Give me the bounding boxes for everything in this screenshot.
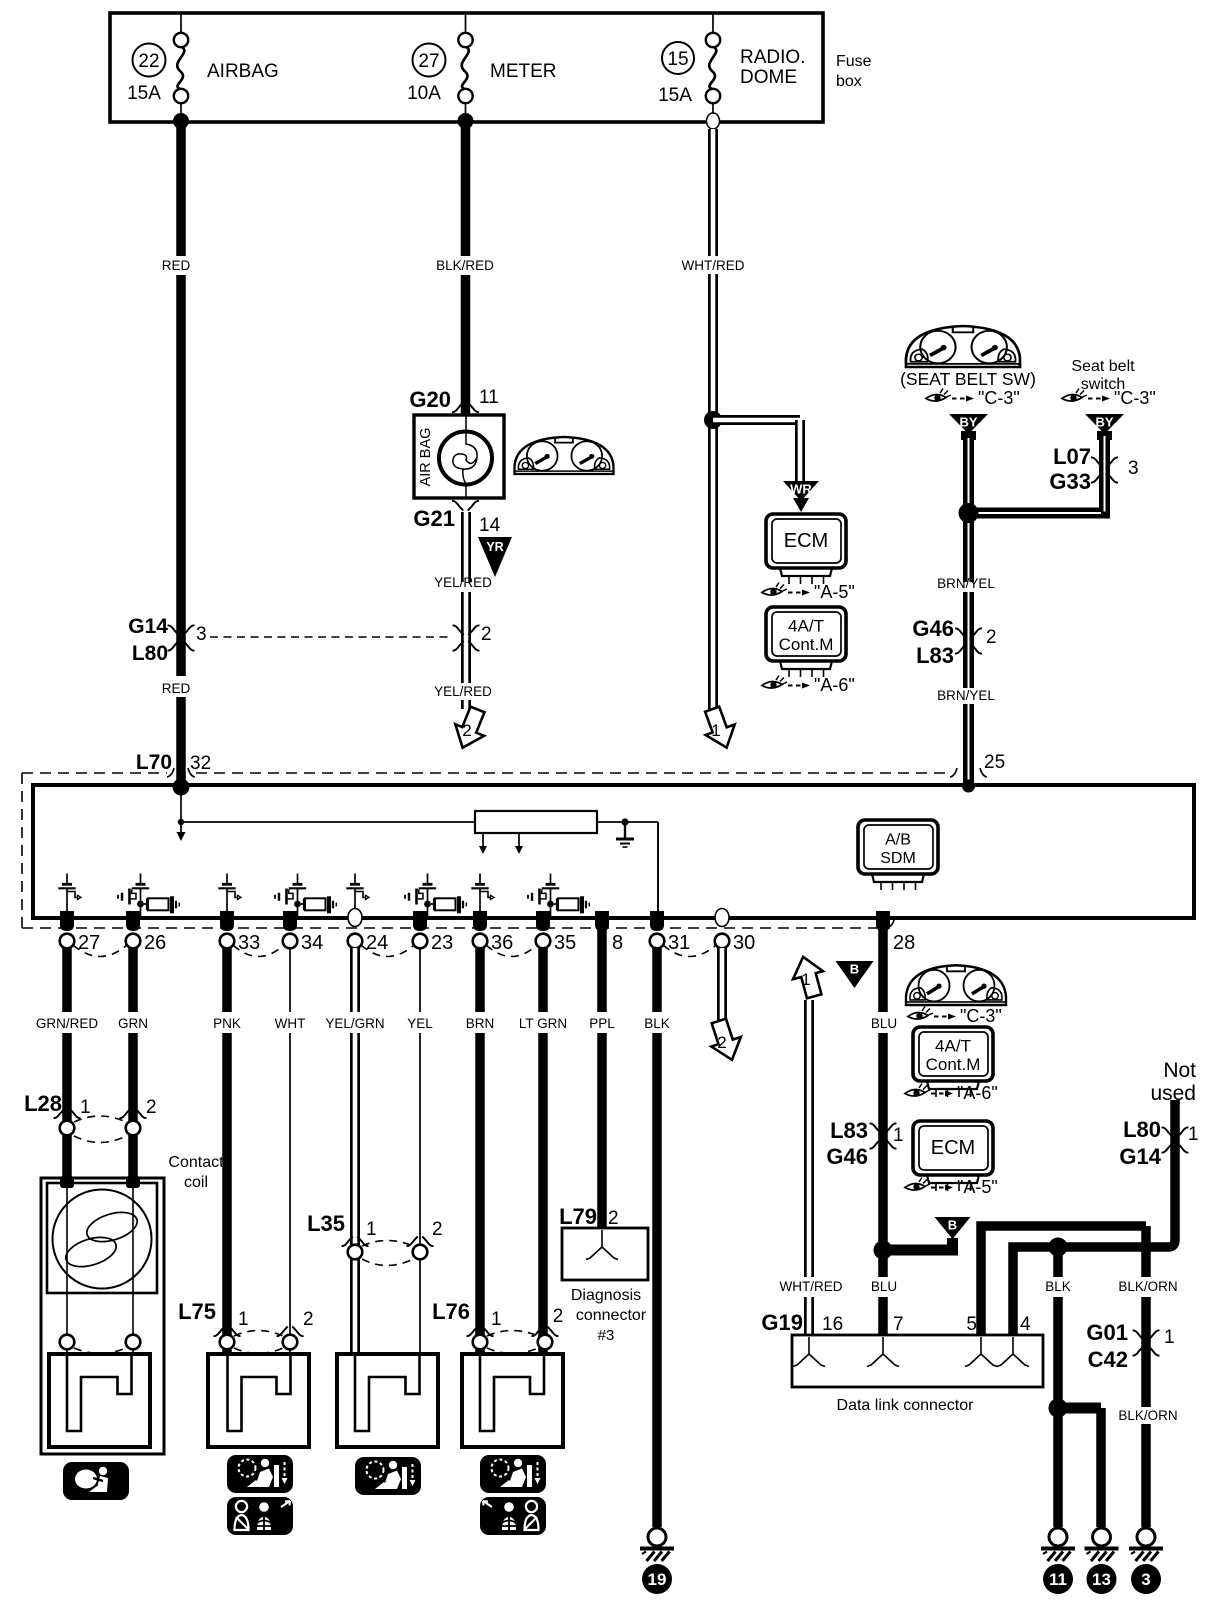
eye ref C-3 left: [926, 394, 946, 401]
svg-text:1: 1: [1188, 1124, 1199, 1145]
svg-text:GRN/RED: GRN/RED: [36, 1016, 99, 1031]
svg-text:A/B: A/B: [885, 832, 911, 849]
svg-text:BLK: BLK: [644, 1016, 670, 1031]
svg-text:2: 2: [717, 1033, 726, 1052]
fuse F15 RADIO DOME 15A: [712, 14, 714, 33]
SDM driver glyph above pin 33: [226, 874, 228, 884]
wire WHT/RED tail to DLC pin 16: [804, 1000, 814, 1277]
svg-text:Contact: Contact: [168, 1154, 224, 1171]
stub from B to BLU junction: [947, 1238, 958, 1250]
dashed connector row below SDM: [22, 927, 890, 929]
svg-text:BLK: BLK: [1045, 1279, 1071, 1294]
triangle B lower: [935, 1217, 971, 1239]
svg-text:2: 2: [553, 1306, 564, 1327]
wire BRN/YEL main from BY to SDM pin 25: [963, 438, 974, 582]
eye ref A-5 upper: [762, 588, 782, 595]
wire BRN pin 36: [475, 948, 485, 1012]
dashed boundary left vertical: [21, 773, 23, 928]
branch wire to WR / ECM: [713, 415, 800, 425]
svg-text:RED: RED: [162, 681, 191, 696]
junction dot BLK branch: [1049, 1238, 1068, 1257]
svg-text:4A/T: 4A/T: [788, 617, 824, 636]
svg-text:G20: G20: [409, 387, 451, 412]
SDM internal horizontal rail: [181, 821, 475, 823]
resistor arrows: [482, 833, 484, 847]
svg-text:30: 30: [733, 932, 755, 954]
svg-text:"A-6": "A-6": [814, 675, 855, 695]
svg-text:AIR BAG: AIR BAG: [418, 428, 434, 487]
svg-text:B: B: [948, 1218, 957, 1233]
svg-text:25: 25: [984, 752, 1005, 773]
svg-text:Cont.M: Cont.M: [779, 635, 834, 654]
module ECM right: [913, 1121, 993, 1175]
fuse F27 METER 10A: [465, 14, 467, 33]
svg-text:1: 1: [711, 721, 720, 740]
wire BLU pin 28 to DLC pin 7: [878, 922, 888, 1012]
arrow 2 off-page down: [448, 704, 492, 754]
side airbag squib: [462, 1354, 563, 1447]
svg-text:1: 1: [893, 1125, 904, 1146]
svg-text:L79: L79: [559, 1204, 597, 1229]
svg-text:3: 3: [1128, 458, 1139, 479]
ground G19 for BLK wire: [648, 1528, 666, 1546]
driver airbag squib: [49, 1354, 150, 1447]
svg-text:1: 1: [801, 970, 810, 989]
SDM module icon A/B SDM: [858, 820, 938, 874]
svg-text:(SEAT BELT SW): (SEAT BELT SW): [900, 369, 1036, 389]
ground 3: [1137, 1528, 1155, 1546]
lamp bulb circle with filament: [439, 432, 492, 485]
SDM internal ground: [597, 821, 658, 823]
svg-text:31: 31: [668, 932, 690, 954]
svg-text:L80: L80: [1123, 1117, 1161, 1142]
wire YEL/GRN pin 24 double: [350, 948, 360, 1012]
wire stubs into contact coil: [60, 1176, 74, 1188]
contact coil outer box: [41, 1178, 164, 1454]
svg-text:"A-5": "A-5": [957, 1177, 998, 1197]
SDM pin stubs: [60, 911, 74, 931]
triangle WR: [783, 481, 819, 501]
fuse box outline: [110, 13, 823, 122]
svg-text:"C-3": "C-3": [960, 1006, 1002, 1026]
svg-text:35: 35: [554, 932, 576, 954]
svg-text:YEL/RED: YEL/RED: [434, 575, 492, 590]
SDM driver glyph above pin 27: [66, 874, 68, 884]
arrow 1 off-page down (WHT/RED): [698, 704, 741, 753]
svg-text:"A-5": "A-5": [814, 582, 855, 602]
pin circles and numbers: [60, 934, 75, 949]
SDM squib driver glyph above pin 35: [550, 874, 552, 884]
svg-text:BLK/ORN: BLK/ORN: [1118, 1279, 1177, 1294]
svg-text:24: 24: [366, 932, 388, 954]
svg-text:3: 3: [196, 624, 207, 645]
ground 11: [1049, 1528, 1067, 1546]
junction dot RED wire at SDM: [173, 779, 190, 796]
junction dot WHT/RED branch: [704, 411, 722, 429]
svg-text:8: 8: [612, 932, 623, 954]
SDM outer box: [33, 785, 1194, 918]
svg-text:"C-3": "C-3": [978, 388, 1020, 408]
svg-text:L35: L35: [307, 1211, 345, 1236]
wire WHT/RED pin 30 double: [717, 948, 727, 1021]
svg-text:WR: WR: [790, 482, 812, 497]
badge passenger airbag icon: [355, 1457, 421, 1495]
svg-text:coil: coil: [184, 1174, 208, 1191]
wire BLK/RED from fuse 27 to G20: [461, 122, 471, 256]
svg-text:Not: Not: [1163, 1059, 1196, 1082]
svg-text:2: 2: [986, 627, 997, 648]
svg-text:ECM: ECM: [931, 1137, 975, 1159]
svg-text:PNK: PNK: [213, 1016, 241, 1031]
svg-text:#3: #3: [598, 1327, 615, 1344]
svg-text:15: 15: [667, 49, 688, 70]
svg-text:YR: YR: [486, 540, 503, 554]
wire GRN pin 26: [128, 948, 138, 1012]
SDM squib driver glyph above pin 26: [140, 874, 142, 884]
diagnosis connector box L79: [562, 1228, 648, 1280]
module ECM upper: [766, 514, 846, 568]
wire DLC pin5 to BLK/ORN: [981, 1226, 1146, 1335]
svg-text:G21: G21: [413, 506, 455, 531]
svg-text:1: 1: [1164, 1327, 1175, 1348]
svg-text:33: 33: [238, 932, 260, 954]
passenger airbag squib: [337, 1354, 438, 1447]
wire GRN/RED pin 27: [62, 948, 72, 1012]
svg-text:LT GRN: LT GRN: [519, 1016, 567, 1031]
connector G21 pin 14: [452, 501, 463, 511]
fuse F22 AIRBAG 15A: [180, 14, 182, 33]
eye ref A-5 right: [905, 1183, 925, 1190]
svg-text:28: 28: [893, 932, 915, 954]
junction dot BRN/YEL: [959, 503, 979, 523]
svg-text:BLK/ORN: BLK/ORN: [1118, 1408, 1177, 1423]
wire YEL/RED double below G21: [461, 512, 471, 582]
svg-text:27: 27: [78, 932, 100, 954]
svg-text:36: 36: [491, 932, 513, 954]
driver airbag badge: [63, 1462, 129, 1500]
svg-text:Diagnosis: Diagnosis: [571, 1287, 641, 1304]
svg-text:BLK/RED: BLK/RED: [436, 258, 494, 273]
svg-text:L70: L70: [136, 751, 172, 774]
svg-text:DOME: DOME: [740, 67, 797, 88]
svg-text:34: 34: [301, 932, 323, 954]
svg-text:L83: L83: [916, 643, 954, 668]
wire DLC pin4 rail joined with Not-used wire: [1013, 1100, 1175, 1335]
wire BLK/ORN down to ground: [1141, 1226, 1151, 1277]
svg-text:C42: C42: [1088, 1347, 1128, 1372]
dashed connector line L70: [22, 772, 167, 774]
svg-text:G01: G01: [1086, 1320, 1128, 1345]
svg-text:2: 2: [481, 624, 492, 645]
wire WHT/RED double from fuse 15 down: [707, 113, 720, 129]
svg-text:box: box: [836, 73, 862, 90]
svg-text:Seat belt: Seat belt: [1071, 358, 1135, 375]
svg-text:1: 1: [238, 1309, 249, 1330]
arrow 2 off-page below pin 30: [705, 1016, 747, 1065]
svg-text:27: 27: [418, 51, 439, 72]
svg-text:7: 7: [893, 1314, 904, 1335]
ground number 19: [642, 1564, 672, 1594]
svg-text:YEL/RED: YEL/RED: [434, 684, 492, 699]
svg-text:connector: connector: [576, 1307, 647, 1324]
wire PPL pin 8: [597, 924, 607, 1012]
triangle BY right: [1085, 414, 1124, 434]
svg-text:SDM: SDM: [880, 850, 916, 867]
svg-text:2: 2: [462, 721, 471, 740]
svg-text:G19: G19: [761, 1310, 803, 1335]
svg-text:11: 11: [479, 387, 499, 408]
svg-text:L28: L28: [24, 1091, 62, 1116]
svg-text:15A: 15A: [658, 85, 692, 106]
wire LT GRN pin 35: [538, 948, 548, 1012]
svg-text:WHT: WHT: [275, 1016, 306, 1031]
AIR BAG warning lamp box: [414, 415, 504, 498]
svg-text:Data link connector: Data link connector: [837, 1397, 975, 1414]
module 4A/T Cont.M upper: [766, 607, 846, 661]
SDM driver glyph above pin 36: [479, 874, 481, 884]
svg-text:4: 4: [1020, 1314, 1031, 1335]
svg-text:BRN: BRN: [466, 1016, 495, 1031]
svg-text:13: 13: [1092, 1570, 1111, 1589]
svg-text:BY: BY: [1095, 415, 1113, 430]
svg-text:WHT/RED: WHT/RED: [682, 258, 745, 273]
svg-text:WHT/RED: WHT/RED: [780, 1279, 843, 1294]
wire WHT pin 34: [289, 948, 291, 1012]
svg-text:L76: L76: [432, 1299, 470, 1324]
svg-text:26: 26: [144, 932, 166, 954]
instrument cluster icon near air bag lamp: [515, 437, 614, 474]
svg-text:YEL/GRN: YEL/GRN: [325, 1016, 384, 1031]
contact coil internal connector circles: [60, 1335, 75, 1350]
junction dot BLK split: [1049, 1399, 1068, 1418]
SDM internal line to pin 31: [657, 822, 659, 916]
svg-text:"C-3": "C-3": [1114, 388, 1156, 408]
svg-text:5: 5: [966, 1314, 977, 1335]
module 4A/T Cont.M right: [913, 1027, 993, 1081]
SDM squib driver glyph above pin 34: [297, 874, 299, 884]
svg-text:1: 1: [80, 1097, 91, 1118]
svg-text:YEL: YEL: [407, 1016, 433, 1031]
svg-text:23: 23: [431, 932, 453, 954]
svg-text:4A/T: 4A/T: [935, 1037, 971, 1056]
svg-text:2: 2: [146, 1097, 157, 1118]
svg-text:BLU: BLU: [871, 1279, 897, 1294]
svg-text:15A: 15A: [127, 83, 161, 104]
svg-text:Fuse: Fuse: [836, 53, 872, 70]
svg-text:G14: G14: [1119, 1144, 1161, 1169]
svg-text:G46: G46: [826, 1144, 868, 1169]
SDM squib driver glyph above pin 23: [427, 874, 429, 884]
instrument cluster icon seat belt: [906, 326, 1020, 367]
wire BLK to ground: [1053, 1247, 1063, 1277]
SDM internal: line from pin 32: [180, 787, 182, 832]
badge side airbag icon2: [480, 1497, 546, 1535]
svg-text:BY: BY: [959, 415, 977, 430]
data link connector box: [792, 1335, 1043, 1387]
svg-text:AIRBAG: AIRBAG: [207, 61, 279, 82]
svg-text:G14: G14: [128, 615, 168, 638]
contact coil spiral: [53, 1190, 152, 1289]
SDM driver glyph above pin 24: [354, 874, 356, 884]
dashed link G14/L80 to 2: [210, 636, 448, 638]
svg-text:1: 1: [366, 1219, 377, 1240]
svg-text:Cont.M: Cont.M: [926, 1055, 981, 1074]
svg-text:L83: L83: [830, 1118, 868, 1143]
triangle B upper: [836, 961, 874, 988]
svg-text:BRN/YEL: BRN/YEL: [937, 688, 995, 703]
eye ref C-3 right: [1062, 394, 1082, 401]
svg-text:32: 32: [190, 753, 211, 774]
passenger front squib L75: [208, 1354, 309, 1447]
svg-text:2: 2: [303, 1309, 314, 1330]
svg-text:11: 11: [1049, 1570, 1067, 1589]
svg-text:GRN: GRN: [118, 1016, 148, 1031]
svg-text:BRN/YEL: BRN/YEL: [937, 576, 995, 591]
ground 13: [1093, 1528, 1111, 1546]
instrument cluster icon right: [906, 965, 1006, 1005]
arrow 1 off-page up (WHT/RED to DLC): [788, 953, 829, 1001]
SDM internal resistor: [475, 811, 597, 833]
svg-text:RADIO.: RADIO.: [740, 47, 805, 68]
svg-text:G33: G33: [1049, 469, 1091, 494]
badge seat belt pretensioner L75 icon1: [227, 1455, 293, 1493]
eye ref C-3 bottom: [908, 1012, 928, 1019]
svg-text:RED: RED: [162, 258, 191, 273]
svg-text:B: B: [850, 962, 859, 977]
wire YEL pin 23: [419, 948, 421, 1012]
badge side airbag icon1: [480, 1455, 546, 1493]
wire BLK pin 31: [652, 948, 662, 1012]
svg-text:22: 22: [138, 51, 159, 72]
svg-text:3: 3: [1141, 1570, 1150, 1589]
svg-text:ECM: ECM: [784, 530, 828, 552]
svg-text:14: 14: [479, 515, 501, 536]
svg-text:BLU: BLU: [871, 1016, 897, 1031]
svg-text:G46: G46: [912, 616, 954, 641]
eye ref A-6 upper: [762, 681, 782, 688]
svg-text:"A-6": "A-6": [957, 1083, 998, 1103]
svg-text:METER: METER: [490, 61, 557, 82]
svg-text:10A: 10A: [407, 83, 441, 104]
svg-text:2: 2: [432, 1219, 443, 1240]
svg-text:19: 19: [648, 1570, 667, 1589]
svg-text:16: 16: [822, 1314, 843, 1335]
connector joint 2 on YEL/RED wire: [453, 625, 464, 635]
triangle YR: [478, 537, 512, 577]
contact coil inner box: [47, 1183, 157, 1293]
svg-text:2: 2: [608, 1208, 619, 1229]
wire PNK pin 33: [222, 948, 232, 1012]
svg-text:L75: L75: [178, 1299, 216, 1324]
eye ref A-6 right: [905, 1089, 925, 1096]
svg-text:used: used: [1150, 1082, 1196, 1105]
wire from right BY down and left to junction: [969, 438, 1105, 513]
triangle BY left: [949, 414, 988, 434]
svg-text:L80: L80: [132, 642, 168, 665]
branch to ground 13: [1058, 1403, 1101, 1414]
wire RED vertical from fuse 22 to SDM pin 32: [176, 122, 186, 256]
svg-text:1: 1: [491, 1309, 502, 1330]
svg-text:PPL: PPL: [589, 1016, 615, 1031]
svg-text:L07: L07: [1053, 444, 1091, 469]
badge child seat warning L75 icon2: [227, 1497, 293, 1535]
